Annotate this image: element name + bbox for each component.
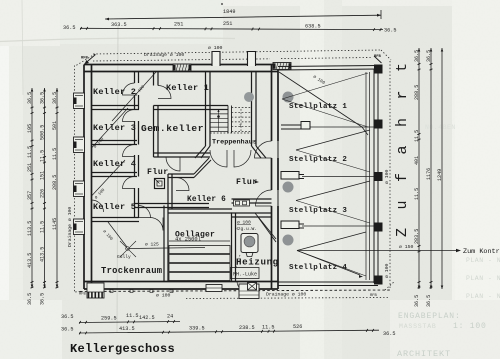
svg-text:24: 24 bbox=[167, 314, 173, 320]
svg-text:638.5: 638.5 bbox=[305, 24, 321, 30]
svg-text:Stellplatz 1: Stellplatz 1 bbox=[289, 103, 347, 111]
svg-text:36.5: 36.5 bbox=[40, 293, 46, 305]
svg-text:11.5: 11.5 bbox=[52, 148, 58, 160]
svg-text:Keller 3: Keller 3 bbox=[93, 123, 136, 133]
svg-text:36.5: 36.5 bbox=[40, 92, 46, 104]
svg-text:RFB: RFB bbox=[370, 294, 378, 298]
svg-text:36.5: 36.5 bbox=[27, 293, 33, 305]
svg-text:36.5: 36.5 bbox=[63, 25, 75, 31]
svg-text:36.5: 36.5 bbox=[414, 295, 420, 307]
svg-text:36.5: 36.5 bbox=[384, 28, 396, 34]
svg-text:11.5: 11.5 bbox=[40, 221, 46, 233]
svg-text:501: 501 bbox=[52, 121, 58, 130]
svg-text:36.5: 36.5 bbox=[61, 327, 73, 333]
svg-text:251: 251 bbox=[27, 163, 33, 172]
svg-text:ø 100: ø 100 bbox=[156, 293, 171, 299]
svg-text:208.5: 208.5 bbox=[52, 175, 58, 190]
svg-text:FH.-Luke: FH.-Luke bbox=[233, 272, 257, 278]
svg-text:Kellergeschoss: Kellergeschoss bbox=[70, 342, 175, 356]
svg-text:357: 357 bbox=[27, 191, 33, 200]
svg-text:Gem.keller: Gem.keller bbox=[141, 123, 204, 134]
svg-text:Gully: Gully bbox=[117, 254, 131, 260]
svg-text:238.5: 238.5 bbox=[239, 325, 255, 331]
svg-text:226: 226 bbox=[40, 189, 46, 198]
svg-text:ø 100: ø 100 bbox=[384, 263, 390, 278]
svg-text:413.5: 413.5 bbox=[40, 247, 46, 262]
svg-text:151: 151 bbox=[40, 171, 46, 180]
svg-text:11.5: 11.5 bbox=[40, 150, 46, 162]
svg-text:11.5: 11.5 bbox=[262, 325, 274, 331]
svg-text:Keller 4: Keller 4 bbox=[93, 159, 136, 169]
svg-text:Keller 6: Keller 6 bbox=[187, 196, 226, 204]
svg-text:500.5: 500.5 bbox=[40, 125, 46, 140]
svg-text:36.5: 36.5 bbox=[27, 92, 33, 104]
svg-text:1176: 1176 bbox=[426, 168, 432, 180]
svg-text:ø 125: ø 125 bbox=[145, 242, 159, 248]
svg-text:1249: 1249 bbox=[437, 169, 443, 181]
svg-text:36.5: 36.5 bbox=[61, 314, 73, 320]
svg-text:Stellplatz 2: Stellplatz 2 bbox=[289, 156, 347, 164]
svg-text:Heizung: Heizung bbox=[236, 257, 279, 268]
svg-text:401: 401 bbox=[414, 156, 420, 165]
svg-text:Zum Kontr: Zum Kontr bbox=[463, 248, 500, 256]
svg-text:11.5: 11.5 bbox=[414, 130, 420, 142]
svg-text:7: 7 bbox=[239, 123, 242, 129]
svg-text:ø 150: ø 150 bbox=[399, 244, 414, 250]
svg-text:Stellplatz 4: Stellplatz 4 bbox=[289, 264, 347, 272]
svg-text:339.5: 339.5 bbox=[189, 326, 205, 332]
svg-text:Drainage ø 100: Drainage ø 100 bbox=[144, 52, 184, 58]
svg-text:Flur: Flur bbox=[236, 177, 258, 187]
svg-text:Keller 1: Keller 1 bbox=[166, 83, 209, 93]
svg-text:36.5: 36.5 bbox=[383, 331, 395, 337]
svg-text:Drainage ø 100: Drainage ø 100 bbox=[67, 207, 73, 247]
svg-text:4x 2500l: 4x 2500l bbox=[175, 237, 201, 243]
svg-text:1849: 1849 bbox=[223, 9, 235, 15]
svg-text:11.5: 11.5 bbox=[27, 146, 33, 158]
svg-text:413.5: 413.5 bbox=[27, 253, 33, 268]
svg-text:251: 251 bbox=[174, 22, 183, 28]
svg-text:36.5: 36.5 bbox=[426, 50, 432, 62]
svg-text:ø 100: ø 100 bbox=[384, 169, 390, 184]
svg-text:413.5: 413.5 bbox=[119, 326, 135, 332]
svg-text:195: 195 bbox=[27, 124, 33, 133]
svg-text:11.5: 11.5 bbox=[126, 313, 138, 319]
svg-text:283.5: 283.5 bbox=[414, 229, 420, 244]
svg-text:RFB: RFB bbox=[79, 293, 87, 297]
svg-text:251: 251 bbox=[223, 21, 232, 27]
svg-text:Zufahrt: Zufahrt bbox=[394, 44, 411, 237]
svg-text:363.5: 363.5 bbox=[111, 22, 127, 28]
svg-text:526: 526 bbox=[293, 324, 302, 330]
svg-text:Drainage ø 100: Drainage ø 100 bbox=[266, 292, 306, 298]
svg-text:1145: 1145 bbox=[52, 218, 58, 230]
svg-text:Keller 2: Keller 2 bbox=[93, 87, 136, 97]
svg-text:Trockenraum: Trockenraum bbox=[101, 266, 162, 276]
svg-text:36.5: 36.5 bbox=[414, 50, 420, 62]
svg-text:288.5: 288.5 bbox=[414, 85, 420, 100]
svg-text:113.5: 113.5 bbox=[27, 221, 33, 236]
svg-text:Flur: Flur bbox=[147, 167, 169, 177]
svg-text:Hzg.u.W.: Hzg.u.W. bbox=[235, 226, 257, 232]
svg-text:Treppenhaus: Treppenhaus bbox=[212, 139, 257, 147]
svg-text:11.5: 11.5 bbox=[414, 188, 420, 200]
svg-text:142.5: 142.5 bbox=[139, 315, 155, 321]
svg-text:36.5: 36.5 bbox=[426, 295, 432, 307]
svg-text:Stellplatz 3: Stellplatz 3 bbox=[289, 207, 347, 215]
svg-text:36.5: 36.5 bbox=[52, 92, 58, 104]
svg-text:ø 100: ø 100 bbox=[208, 45, 223, 51]
svg-text:RFB: RFB bbox=[81, 57, 89, 61]
svg-text:Keller 5: Keller 5 bbox=[93, 202, 136, 212]
svg-text:259.5: 259.5 bbox=[101, 316, 117, 322]
